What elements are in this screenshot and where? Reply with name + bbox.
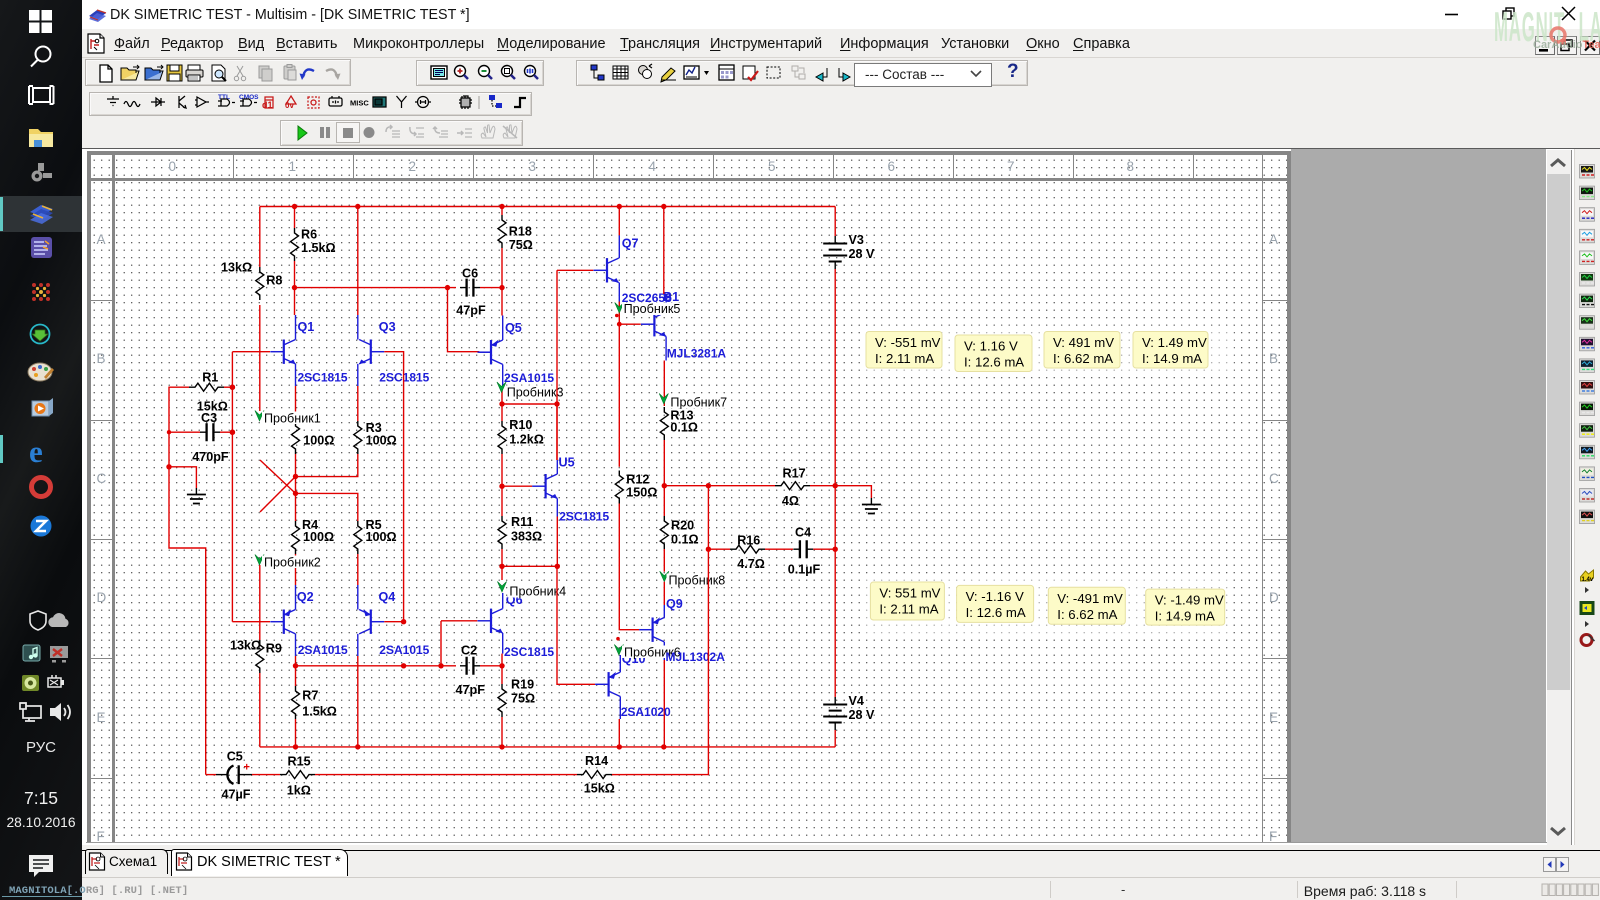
svg-text:Q2: Q2 <box>297 590 314 604</box>
svg-text:C5: C5 <box>227 750 243 764</box>
wire VAS node to U5 col <box>502 404 557 460</box>
node cross B <box>293 491 298 496</box>
wire node to Q5 <box>501 288 503 316</box>
probe box 1 <box>866 332 942 369</box>
capacitor C2 <box>460 665 480 667</box>
wire to Q1 base <box>232 351 270 353</box>
node Q6 base/C2 <box>438 663 443 668</box>
wire C2 to Q6 node <box>480 665 502 667</box>
wire R18 to C6 node <box>501 248 503 288</box>
wire Q1 collector lead <box>295 315 297 340</box>
svg-text:470pF: 470pF <box>192 450 229 464</box>
node bus Q4 <box>355 744 360 749</box>
wire to MJL3281A base <box>619 323 640 325</box>
wire base column Q1-Q2 <box>231 352 233 622</box>
probe box 3 <box>1044 332 1120 369</box>
label Пробник5 <box>622 303 684 316</box>
node rail x358 <box>355 204 360 209</box>
wire C5 to R15 <box>252 774 280 776</box>
node bus R7 <box>293 744 298 749</box>
svg-text:I: 6.62 mA: I: 6.62 mA <box>1053 351 1113 366</box>
node rail x664 <box>661 204 666 209</box>
probe box 5 <box>870 582 944 620</box>
wire R13 to output node <box>663 440 665 486</box>
wire R19 to bus <box>501 717 503 747</box>
probe box 2 <box>955 335 1032 372</box>
svg-text:V: 551 mV: V: 551 mV <box>879 586 940 601</box>
svg-text:R6: R6 <box>301 228 317 242</box>
resistor R20 <box>663 486 665 516</box>
node VAS L <box>499 401 504 406</box>
svg-text:Q9: Q9 <box>666 597 683 611</box>
wire node to R4 <box>295 477 297 522</box>
wire U5 emitter to node <box>556 517 558 567</box>
wire to V4 <box>834 549 836 697</box>
svg-text:C4: C4 <box>795 526 811 540</box>
wire Q4 collector to bus <box>357 656 359 747</box>
resistor R4 <box>292 521 300 554</box>
node zobel L <box>706 547 711 552</box>
wire Q9 collector lead <box>663 642 665 660</box>
battery V4 <box>834 697 836 730</box>
svg-text:2SC1815: 2SC1815 <box>559 510 609 524</box>
node output B <box>706 483 711 488</box>
node cross A <box>293 474 298 479</box>
wire zobel to R14 <box>625 549 708 774</box>
svg-text:R8: R8 <box>266 274 282 288</box>
wire R17 to ground <box>810 486 871 498</box>
svg-text:V: -491 mV: V: -491 mV <box>1057 591 1123 606</box>
svg-text:4Ω: 4Ω <box>782 494 799 508</box>
wire R4 to Q2 <box>295 554 297 585</box>
node bias L <box>499 564 504 569</box>
wire node to Q1 collector <box>294 288 296 315</box>
node rail x619 <box>617 204 622 209</box>
capacitor C3 <box>169 431 200 433</box>
resistor R7 <box>295 666 297 686</box>
resistor R17 <box>775 482 810 490</box>
svg-text:1.5kΩ: 1.5kΩ <box>301 241 336 255</box>
wire Q3 collector lead <box>357 315 359 340</box>
probe Пробник1 <box>255 411 264 422</box>
transistor U5 <box>532 474 557 498</box>
title bar <box>82 0 1600 29</box>
label Пробник1 <box>262 412 325 425</box>
svg-text:MJL3281A: MJL3281A <box>667 347 727 361</box>
wire R2 to node <box>295 454 297 477</box>
wire R3 cross node <box>296 454 358 477</box>
wire q5 base stub <box>479 351 491 353</box>
wire to Q2 base <box>232 621 270 623</box>
svg-text:1.2kΩ: 1.2kΩ <box>509 433 544 447</box>
wire MJL collector lead <box>665 294 667 312</box>
toolbar row 1 <box>82 58 1600 90</box>
node bias R <box>555 564 560 569</box>
svg-text:13kΩ: 13kΩ <box>221 261 252 275</box>
resistor R18 <box>501 207 503 216</box>
wire Q6 base drop <box>440 621 442 666</box>
wire Q6 base <box>441 620 477 622</box>
wire MJL emitter to R13 <box>663 361 665 407</box>
toolbar row 3 (simulation) <box>82 119 1600 148</box>
svg-text:R7: R7 <box>302 689 318 703</box>
wire cross to R5 <box>296 493 358 521</box>
svg-text:R9: R9 <box>266 642 282 656</box>
svg-text:I: 14.9 mA: I: 14.9 mA <box>1155 609 1215 624</box>
menu bar <box>82 29 1600 58</box>
wire Q10 emitter lead <box>619 655 621 672</box>
node MJL base <box>617 322 622 327</box>
wire Q9 collector to bus <box>663 660 665 747</box>
wire R5 to Q4 <box>357 554 359 585</box>
wire Q4 emitter lead <box>357 585 359 610</box>
wire Q5 collector lead <box>502 364 504 388</box>
node C3/base <box>230 430 235 435</box>
wire Q1 emitter lead <box>295 364 297 386</box>
label Пробник2 <box>262 556 325 569</box>
wire Q3 base to feedback col <box>384 352 403 622</box>
ground output <box>870 498 872 504</box>
probe halo bottom <box>866 579 1230 636</box>
probe box 8 <box>1146 589 1225 625</box>
wire Q3 emitter lead <box>357 364 359 386</box>
wire cross diagonal 2 <box>260 477 296 513</box>
wire Q2 collector lead <box>295 634 297 656</box>
svg-text:Пробник3: Пробник3 <box>507 386 564 400</box>
wire Q2 node to C2 <box>296 665 457 667</box>
battery V3 <box>834 236 836 269</box>
instruments toolbar <box>1574 149 1600 653</box>
svg-text:2SA1015: 2SA1015 <box>298 643 348 657</box>
transistor Q2 <box>270 610 295 634</box>
wire rail to Q7 <box>618 207 620 236</box>
wire U5 node to Q10 base <box>557 566 595 684</box>
resistor R14 <box>577 771 612 779</box>
node supply cross <box>833 483 838 488</box>
node fb col/C2 <box>401 663 406 668</box>
wire Q7 emitter col to R12 <box>618 302 620 467</box>
wire R20 to probe8 <box>663 549 665 572</box>
svg-text:28 V: 28 V <box>849 708 876 722</box>
svg-text:Пробник7: Пробник7 <box>670 396 727 410</box>
wire Q9 emitter lead <box>663 605 665 618</box>
svg-text:13kΩ: 13kΩ <box>230 639 261 653</box>
wire bias node <box>502 565 557 567</box>
resistor R13 <box>660 407 668 440</box>
svg-text:2SA1015: 2SA1015 <box>379 643 429 657</box>
wire Q7 base column <box>556 270 558 404</box>
wire input left loop <box>169 387 206 774</box>
wire U5 collector lead <box>556 460 558 474</box>
svg-text:2SA1020: 2SA1020 <box>621 705 671 719</box>
wire rail to Q3 collector <box>357 207 359 316</box>
svg-text:Q5: Q5 <box>505 321 522 335</box>
transistor Q3 <box>359 340 384 364</box>
resistor R15 <box>280 771 315 779</box>
toolbar row 2 (components) <box>82 90 1600 119</box>
svg-text:2SC1815: 2SC1815 <box>379 371 429 385</box>
wire Q5 emitter lead <box>502 316 504 341</box>
svg-text:V4: V4 <box>849 694 864 708</box>
svg-text:U5: U5 <box>559 456 575 470</box>
wire Q5 to VAS node <box>501 388 503 404</box>
wire Q4 collector lead <box>357 634 359 656</box>
wire C3 right <box>220 431 232 433</box>
node feedback/Q4 base <box>401 619 406 624</box>
svg-text:I: 12.6 mA: I: 12.6 mA <box>966 605 1026 620</box>
svg-text:100Ω: 100Ω <box>303 530 334 544</box>
svg-text:R19: R19 <box>511 678 534 692</box>
node rail x294 <box>292 204 297 209</box>
svg-text:CMOS: CMOS <box>239 94 259 101</box>
transistor Q9 MJL1302A <box>639 618 664 642</box>
svg-text:15kΩ: 15kΩ <box>584 782 615 796</box>
svg-text:100Ω: 100Ω <box>366 434 397 448</box>
probe Пробник8 <box>660 571 669 582</box>
wire Q10 collector lead <box>619 697 621 720</box>
svg-text:100Ω: 100Ω <box>303 434 334 448</box>
wire C6 to R18 node <box>480 287 502 289</box>
wire top +28V rail <box>260 206 835 208</box>
node Q2/R7 <box>293 663 298 668</box>
wire Q2 collector to node <box>295 656 297 666</box>
node rail x502 <box>499 204 504 209</box>
svg-text:0.1µF: 0.1µF <box>788 563 821 577</box>
svg-text:75Ω: 75Ω <box>509 238 533 252</box>
wire node to C6 <box>295 287 457 289</box>
svg-text:Пробник1: Пробник1 <box>264 412 321 426</box>
probe box 7 <box>1048 587 1125 624</box>
wire zobel drop <box>707 486 709 550</box>
wire output node to R17 <box>664 485 775 487</box>
wire rail to V3 <box>834 207 836 237</box>
svg-text:4.7Ω: 4.7Ω <box>737 557 765 571</box>
node Q5 base tap <box>445 285 450 290</box>
watermark bottom <box>9 885 188 897</box>
wire Q7 base <box>557 269 593 271</box>
svg-text:MJL1302A: MJL1302A <box>666 650 726 664</box>
probe Пробник2 <box>255 555 264 566</box>
resistor R1 <box>189 383 224 391</box>
svg-text:V: -1.16 V: V: -1.16 V <box>966 589 1024 604</box>
resistor R9 <box>259 565 261 640</box>
probe box 4 <box>1133 332 1208 369</box>
node output A <box>662 483 667 488</box>
wire R1 to base col <box>224 386 232 388</box>
node bus Q10 <box>617 744 622 749</box>
svg-text:I: 6.62 mA: I: 6.62 mA <box>1057 607 1117 622</box>
svg-text:V: 1.16 V: V: 1.16 V <box>964 339 1018 354</box>
wire Q6 emitter lead <box>502 633 504 654</box>
wire Q7 emitter lead <box>618 283 620 302</box>
wire rail to MJL3281A <box>663 207 665 295</box>
capacitor C4 <box>793 548 813 550</box>
wire bottom bus <box>260 746 835 748</box>
wire to Q5 base <box>448 288 480 352</box>
svg-text:R20: R20 <box>671 519 694 533</box>
wire R11 to node <box>501 549 503 566</box>
svg-text:100Ω: 100Ω <box>366 530 397 544</box>
svg-text:Q3: Q3 <box>379 320 396 334</box>
svg-text:V: -1.49 mV: V: -1.49 mV <box>1155 593 1224 608</box>
schematic workspace <box>82 148 1600 845</box>
svg-text:+: + <box>244 762 250 774</box>
resistor R11 <box>498 516 506 549</box>
svg-text:R15: R15 <box>288 755 311 769</box>
wire R9 to bus <box>259 673 261 747</box>
svg-text:0v: 0v <box>285 101 294 110</box>
svg-text:150Ω: 150Ω <box>626 486 657 500</box>
wire Q3 emitter to R3 <box>357 386 359 421</box>
wire supply col <box>834 486 836 550</box>
svg-text:R10: R10 <box>509 418 532 432</box>
svg-text:0.1Ω: 0.1Ω <box>670 421 698 435</box>
svg-text:2SC1815: 2SC1815 <box>298 371 348 385</box>
wire Q4 base <box>384 621 403 623</box>
wire Q7 collector lead <box>618 235 620 258</box>
resistor R6 <box>294 207 296 229</box>
transistor Q1 <box>270 340 295 364</box>
svg-text:1.5kΩ: 1.5kΩ <box>302 705 337 719</box>
probe Пробник3 <box>497 382 506 393</box>
node bus Q9 <box>661 744 666 749</box>
probe box 6 <box>957 585 1034 622</box>
svg-text:47pF: 47pF <box>456 683 486 697</box>
wire node to probe4 <box>501 566 503 580</box>
svg-text:V: 491 mV: V: 491 mV <box>1053 335 1114 350</box>
wire probe8 to Q9 <box>663 582 665 605</box>
probe halo top <box>862 326 1234 376</box>
wire to R16 <box>708 548 730 550</box>
svg-text:Q1: Q1 <box>298 320 315 334</box>
svg-text:I: 14.9 mA: I: 14.9 mA <box>1142 351 1202 366</box>
wire U5 col up <box>556 404 558 460</box>
svg-text:R17: R17 <box>783 467 806 481</box>
node R1/base <box>230 385 235 390</box>
resistor R5 <box>354 521 362 554</box>
tab bar <box>82 845 1600 877</box>
svg-text:2SC1815: 2SC1815 <box>504 645 554 659</box>
wire R14 right <box>612 774 625 776</box>
wire R6 to node <box>294 261 296 288</box>
svg-text:I: 12.6 mA: I: 12.6 mA <box>964 355 1024 370</box>
svg-text:R14: R14 <box>585 754 608 768</box>
wire U5 emitter lead <box>556 498 558 516</box>
capacitor C6 <box>460 287 480 289</box>
resistor R8 <box>259 207 261 268</box>
wire Q2 emitter lead <box>295 585 297 610</box>
resistor R19 <box>501 666 503 684</box>
svg-text:C3: C3 <box>201 411 217 425</box>
svg-text:R11: R11 <box>511 515 533 529</box>
wire R7 to bus <box>295 719 297 747</box>
svg-text:V3: V3 <box>849 233 864 247</box>
wire V3 to output node <box>834 269 836 486</box>
node C6 right <box>499 285 504 290</box>
node VAS R <box>554 401 559 406</box>
probe Пробник7 <box>659 394 668 405</box>
ground input <box>169 467 196 488</box>
svg-text:R12: R12 <box>626 473 649 487</box>
svg-text:75Ω: 75Ω <box>511 692 535 706</box>
svg-text:d1: d1 <box>262 100 273 110</box>
transistor Q6 <box>478 609 503 633</box>
resistor R12 <box>615 471 623 504</box>
svg-text:C2: C2 <box>461 644 477 658</box>
svg-text:V: 1.49 mV: V: 1.49 mV <box>1142 335 1207 350</box>
transistor Q5 <box>478 340 503 364</box>
node bus R19 <box>499 744 504 749</box>
wire R15 to R14 <box>315 774 577 776</box>
wire R8 down to probe1 <box>259 305 261 411</box>
resistor R16 <box>730 545 765 553</box>
node ground tap <box>166 464 171 469</box>
transistor Q7 <box>594 258 619 282</box>
svg-text:R18: R18 <box>509 225 532 239</box>
svg-text:47µF: 47µF <box>222 788 251 802</box>
wire to C5 <box>206 774 216 776</box>
taskbar <box>0 0 82 900</box>
svg-text:I: 2.11 mA: I: 2.11 mA <box>879 602 938 617</box>
resistor R3 <box>354 421 362 454</box>
svg-text:2SA1015: 2SA1015 <box>504 371 554 385</box>
wire Q6 emitter to node <box>501 654 503 666</box>
wire U5 base <box>502 485 532 487</box>
node C6 left <box>292 285 297 290</box>
svg-text:28 V: 28 V <box>849 247 876 261</box>
svg-text:I: 2.11 mA: I: 2.11 mA <box>875 351 934 366</box>
wire Q10 collector to bus <box>618 719 620 747</box>
svg-text:MISC: MISC <box>350 99 369 108</box>
svg-text:47pF: 47pF <box>456 304 486 318</box>
resistor R10 <box>501 404 503 421</box>
capacitor C5 <box>216 774 228 776</box>
wire R10-R11 <box>501 454 503 516</box>
svg-text:Пробник8: Пробник8 <box>669 574 726 588</box>
svg-text:R16: R16 <box>737 534 760 548</box>
wire Q6 collector lead <box>502 593 504 609</box>
watermark top <box>1494 3 1600 51</box>
svg-text:R1: R1 <box>202 371 218 385</box>
resistor R2 <box>292 421 300 454</box>
wire Q1 emitter to R2 <box>295 386 297 421</box>
svg-text:0.1Ω: 0.1Ω <box>671 533 699 547</box>
wire cross diagonal 1 <box>260 460 296 493</box>
probe Пробник5 <box>615 303 624 314</box>
svg-text:V: -551 mV: V: -551 mV <box>875 335 941 350</box>
wire R16 to C4 <box>765 548 793 550</box>
svg-text:383Ω: 383Ω <box>511 530 542 544</box>
status bar <box>82 877 1600 900</box>
wire V4 to bottom bus <box>834 730 836 747</box>
wire MJL emitter lead <box>665 336 667 360</box>
node zobel R <box>833 547 838 552</box>
node U5 base <box>499 484 504 489</box>
node Q6/C2/R19 <box>499 663 504 668</box>
probe Пробник4 <box>497 582 506 593</box>
wire R12 to Q9 base <box>619 504 639 630</box>
svg-text:Пробник5: Пробник5 <box>624 302 681 316</box>
svg-text:1kΩ: 1kΩ <box>287 784 311 798</box>
svg-text:Q4: Q4 <box>379 590 396 604</box>
svg-text:C6: C6 <box>462 267 478 281</box>
transistor Q10 2SA1020 <box>595 672 620 696</box>
wire C4 to supply col <box>813 548 835 550</box>
transistor Q4 <box>359 610 384 634</box>
svg-text:Q7: Q7 <box>622 237 639 251</box>
svg-text:Пробник2: Пробник2 <box>264 556 321 570</box>
transistor Q8 MJL3281A <box>641 312 666 336</box>
